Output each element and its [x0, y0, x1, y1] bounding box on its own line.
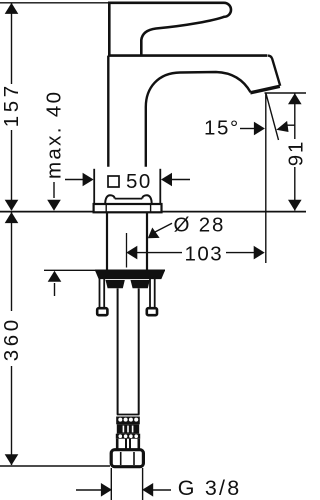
dim square50 right arrow — [161, 173, 172, 187]
15 deg slant line — [266, 94, 279, 141]
escutcheon rim right bump — [142, 195, 152, 204]
dim 360 line — [11, 212, 13, 465]
body skirt right edge — [159, 169, 161, 204]
escutcheon plate division right — [150, 205, 152, 213]
rod nut right — [147, 308, 157, 315]
supply hose right edge — [138, 288, 140, 414]
dim 360 arrow up — [5, 212, 19, 223]
supply hose left edge — [117, 288, 119, 414]
dim 91 line — [294, 94, 296, 211]
dim G38 right arrow — [142, 483, 153, 497]
dim G38 extension right — [142, 468, 144, 500]
svg-text:G 3/8: G 3/8 — [178, 476, 242, 500]
pipe centerline — [126, 233, 128, 268]
dim max40 lower arrow up — [48, 271, 62, 282]
rod nut left — [97, 308, 107, 315]
escutcheon plate division left — [105, 205, 107, 213]
extension line top (spout/handle top level) — [0, 2, 110, 4]
threaded rod right — [149, 279, 151, 308]
dim 360 arrow down — [5, 454, 19, 465]
dim G38 extension left — [110, 468, 112, 500]
escutcheon rim left bump — [105, 195, 115, 204]
fitting neck — [117, 439, 139, 450]
aerator face (15 deg) — [250, 86, 279, 93]
hose nipple left — [106, 280, 124, 288]
counter line right — [162, 211, 306, 213]
dim G38 left arrow — [76, 489, 102, 491]
dim 103 left arrow — [126, 246, 137, 260]
escutcheon rim saddle line — [115, 198, 143, 200]
extension line flange top — [44, 269, 95, 271]
dim square50 left arrow — [65, 179, 84, 181]
svg-text:103: 103 — [185, 242, 224, 265]
dim 157 arrow down — [5, 200, 19, 211]
dim square50 square glyph — [108, 176, 119, 187]
mounting flange top lip — [95, 269, 165, 271]
dim 103 line left — [136, 252, 182, 254]
hose end line — [117, 414, 140, 416]
dim 15deg left arrow — [240, 128, 256, 130]
mounting flange body — [96, 272, 164, 279]
dim 103 line right — [226, 252, 255, 254]
dim 91 extension line — [265, 92, 307, 94]
body top line — [108, 54, 267, 57]
spout underside and body right edge — [146, 72, 251, 167]
svg-text:Ø 28: Ø 28 — [174, 214, 226, 237]
15 deg extension vertical — [265, 94, 267, 264]
shank pipe right edge — [146, 213, 148, 271]
spout right face — [268, 56, 281, 86]
svg-text:360: 360 — [0, 316, 23, 361]
svg-text:15°: 15° — [204, 116, 240, 139]
body left edge — [107, 56, 109, 167]
hose crimp collar mid — [117, 424, 139, 433]
dim 157 line — [11, 4, 13, 211]
dim 91 arrow down — [288, 200, 302, 211]
counter line left — [0, 211, 93, 213]
shank pipe left edge — [106, 213, 108, 271]
extension line hose bottom — [0, 465, 110, 467]
dim 15deg right arrow — [276, 121, 288, 132]
dim 91 arrow up — [288, 93, 302, 104]
connection nut G3/8 — [111, 450, 143, 467]
escutcheon base plate — [94, 204, 162, 212]
handle lever — [109, 3, 231, 56]
dim max40 line — [53, 182, 55, 198]
dim diameter28 leader — [155, 223, 172, 232]
svg-text:max. 40: max. 40 — [43, 90, 66, 179]
svg-text:157: 157 — [0, 82, 23, 127]
hose crimp bead row — [116, 434, 140, 439]
svg-text:91: 91 — [285, 140, 306, 166]
hose crimp collar upper — [116, 417, 140, 425]
threaded rod left — [99, 279, 101, 308]
dim 103 right arrow — [254, 246, 265, 260]
hose nipple right — [131, 280, 149, 288]
body skirt left edge — [93, 169, 95, 204]
dim max40 arrow down — [47, 200, 61, 211]
svg-text:50: 50 — [126, 170, 152, 193]
dim 157 arrow up — [5, 3, 19, 14]
